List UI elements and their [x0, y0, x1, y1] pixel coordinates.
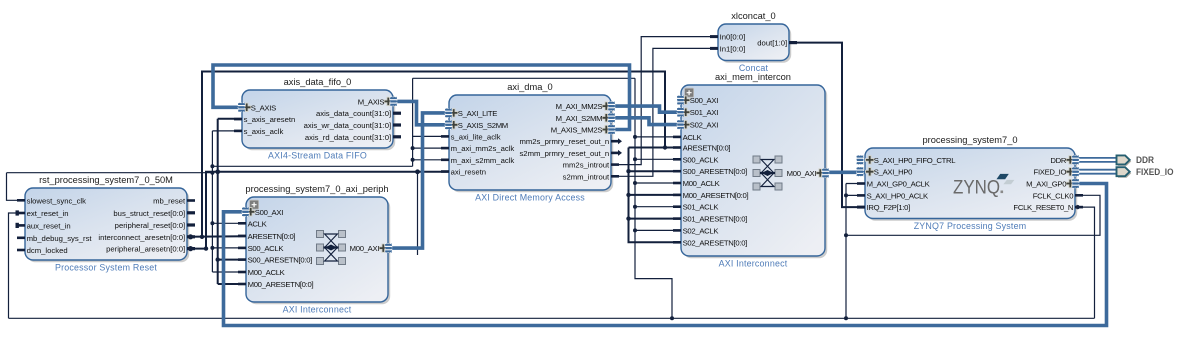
svg-text:M00_AXI: M00_AXI [350, 244, 380, 253]
svg-text:processing_system7_0_axi_perip: processing_system7_0_axi_periph [245, 184, 388, 194]
svg-text:FIXED_IO: FIXED_IO [1034, 168, 1067, 177]
svg-text:M00_ACLK: M00_ACLK [248, 268, 286, 277]
svg-text:AXI Direct Memory Access: AXI Direct Memory Access [475, 193, 585, 203]
svg-text:axi_dma_0: axi_dma_0 [507, 82, 552, 92]
svg-text:M_AXI_GP0: M_AXI_GP0 [1026, 180, 1066, 189]
svg-text:ZYNQ: ZYNQ [953, 178, 1000, 199]
svg-text:AXI4-Stream Data FIFO: AXI4-Stream Data FIFO [268, 151, 367, 161]
svg-text:ARESETN[0:0]: ARESETN[0:0] [248, 232, 296, 241]
svg-text:S00_ACLK: S00_ACLK [683, 155, 720, 164]
svg-text:FIXED_IO: FIXED_IO [1136, 167, 1174, 177]
svg-text:FCLK_RESET0_N: FCLK_RESET0_N [1013, 203, 1073, 212]
svg-text:bus_struct_reset[0:0]: bus_struct_reset[0:0] [113, 209, 185, 218]
svg-text:S_AXI_HP0_ACLK: S_AXI_HP0_ACLK [867, 191, 929, 200]
svg-text:xlconcat_0: xlconcat_0 [731, 11, 775, 21]
svg-text:S_AXIS_S2MM: S_AXIS_S2MM [458, 121, 508, 130]
svg-text:mb_reset: mb_reset [153, 197, 186, 206]
svg-text:axi_resetn: axi_resetn [451, 168, 486, 177]
svg-text:s2mm_prmry_reset_out_n: s2mm_prmry_reset_out_n [519, 149, 609, 158]
svg-text:AXI Interconnect: AXI Interconnect [719, 259, 788, 269]
svg-text:slowest_sync_clk: slowest_sync_clk [27, 196, 87, 205]
svg-text:s2mm_introut: s2mm_introut [563, 172, 610, 181]
svg-text:M_AXIS: M_AXIS [358, 97, 385, 106]
svg-text:S_AXIS: S_AXIS [251, 103, 276, 112]
svg-text:mm2s_prmry_reset_out_n: mm2s_prmry_reset_out_n [519, 137, 609, 146]
svg-text:ACLK: ACLK [248, 219, 268, 228]
svg-text:S02_AXI: S02_AXI [690, 121, 718, 130]
svg-text:FCLK_CLK0: FCLK_CLK0 [1033, 191, 1073, 200]
svg-text:In0[0:0]: In0[0:0] [720, 33, 746, 42]
svg-text:peripheral_reset[0:0]: peripheral_reset[0:0] [115, 221, 186, 230]
svg-text:S00_ARESETN[0:0]: S00_ARESETN[0:0] [683, 167, 748, 176]
svg-text:axis_rd_data_count[31:0]: axis_rd_data_count[31:0] [305, 133, 391, 142]
svg-text:processing_system7_0: processing_system7_0 [922, 135, 1017, 145]
svg-text:S02_ACLK: S02_ACLK [683, 226, 720, 235]
svg-text:M_AXI_GP0_ACLK: M_AXI_GP0_ACLK [867, 180, 931, 189]
svg-text:axis_data_count[31:0]: axis_data_count[31:0] [316, 109, 391, 118]
svg-text:peripheral_aresetn[0:0]: peripheral_aresetn[0:0] [106, 245, 185, 254]
svg-text:mb_debug_sys_rst: mb_debug_sys_rst [27, 234, 93, 243]
svg-text:S_AXI_HP0_FIFO_CTRL: S_AXI_HP0_FIFO_CTRL [874, 156, 956, 165]
svg-text:Processor System Reset: Processor System Reset [55, 263, 157, 273]
svg-text:M00_AXI: M00_AXI [787, 169, 817, 178]
svg-text:M00_ARESETN[0:0]: M00_ARESETN[0:0] [248, 280, 314, 289]
svg-text:ACLK: ACLK [683, 133, 703, 142]
svg-text:axi_mem_intercon: axi_mem_intercon [715, 72, 791, 82]
svg-text:M_AXI_S2MM: M_AXI_S2MM [556, 114, 603, 123]
svg-text:M_AXIS_MM2S: M_AXIS_MM2S [551, 126, 603, 135]
svg-text:AXI Interconnect: AXI Interconnect [283, 305, 352, 315]
svg-text:ARESETN[0:0]: ARESETN[0:0] [683, 144, 731, 153]
svg-text:dcm_locked: dcm_locked [27, 246, 68, 255]
svg-text:M00_ACLK: M00_ACLK [683, 179, 721, 188]
svg-text:mm2s_introut: mm2s_introut [563, 161, 610, 170]
svg-text:S02_ARESETN[0:0]: S02_ARESETN[0:0] [683, 238, 748, 247]
svg-text:In1[0:0]: In1[0:0] [720, 44, 746, 53]
svg-text:dout[1:0]: dout[1:0] [757, 39, 787, 48]
svg-text:s_axis_aclk: s_axis_aclk [244, 127, 284, 136]
svg-text:S01_AXI: S01_AXI [690, 108, 718, 117]
svg-text:s_axis_aresetn: s_axis_aresetn [244, 115, 296, 124]
svg-text:S00_ARESETN[0:0]: S00_ARESETN[0:0] [248, 256, 313, 265]
svg-text:rst_processing_system7_0_50M: rst_processing_system7_0_50M [39, 175, 173, 185]
svg-text:axis_data_fifo_0: axis_data_fifo_0 [284, 77, 352, 87]
svg-text:M_AXI_MM2S: M_AXI_MM2S [556, 102, 603, 111]
svg-text:ext_reset_in: ext_reset_in [27, 209, 69, 218]
svg-text:DDR: DDR [1136, 155, 1154, 165]
svg-text:S00_AXI: S00_AXI [690, 96, 718, 105]
svg-text:m_axi_s2mm_aclk: m_axi_s2mm_aclk [451, 156, 515, 165]
svg-text:S00_AXI: S00_AXI [255, 208, 283, 217]
svg-text:M00_ARESETN[0:0]: M00_ARESETN[0:0] [683, 191, 749, 200]
svg-text:interconnect_aresetn[0:0]: interconnect_aresetn[0:0] [98, 233, 185, 242]
svg-text:aux_reset_in: aux_reset_in [27, 221, 71, 230]
svg-text:m_axi_mm2s_aclk: m_axi_mm2s_aclk [451, 144, 515, 153]
svg-text:S_AXI_LITE: S_AXI_LITE [458, 109, 497, 118]
svg-text:S_AXI_HP0: S_AXI_HP0 [874, 168, 912, 177]
svg-text:S01_ARESETN[0:0]: S01_ARESETN[0:0] [683, 215, 748, 224]
svg-text:axis_wr_data_count[31:0]: axis_wr_data_count[31:0] [304, 121, 392, 130]
svg-text:ZYNQ7 Processing System: ZYNQ7 Processing System [914, 221, 1027, 231]
svg-text:S00_ACLK: S00_ACLK [248, 244, 285, 253]
svg-text:S01_ACLK: S01_ACLK [683, 203, 720, 212]
svg-text:s_axi_lite_aclk: s_axi_lite_aclk [451, 132, 501, 141]
svg-text:IRQ_F2P[1:0]: IRQ_F2P[1:0] [867, 203, 911, 212]
svg-text:DDR: DDR [1050, 156, 1067, 165]
